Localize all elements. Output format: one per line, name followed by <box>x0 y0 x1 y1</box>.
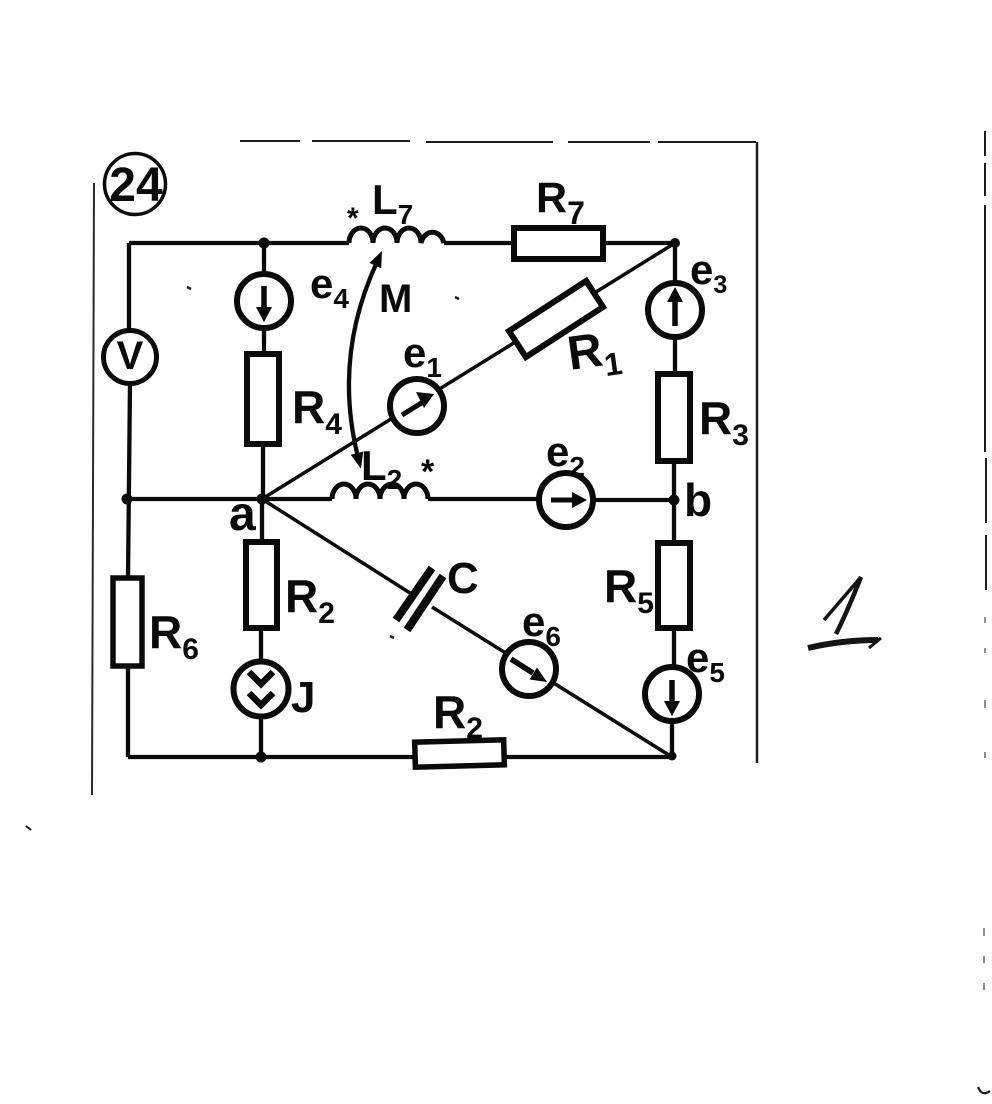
wire right upper segment <box>673 336 677 374</box>
wire top middle segment <box>444 241 514 245</box>
wire e4 to R4 <box>262 327 266 354</box>
wire right lower segment <box>672 628 676 668</box>
wire left middle segment <box>128 383 130 578</box>
scan marks right edge <box>978 131 990 1093</box>
page frame right vertical line <box>756 142 759 763</box>
wire right bottom segment <box>670 720 674 757</box>
emf source e1 <box>390 379 444 433</box>
diagonal wire a to bottom right corner <box>262 499 672 757</box>
svg-text:V: V <box>117 334 144 378</box>
emf source e6 <box>502 642 556 696</box>
emf source e3 <box>648 283 702 337</box>
wire top left segment <box>129 241 349 245</box>
scan speck 1 <box>187 287 191 289</box>
resistor R5 <box>658 543 690 628</box>
scan speck 2 <box>455 297 459 299</box>
page frame top dashed line <box>240 141 756 142</box>
capacitor C <box>396 568 443 630</box>
svg-text:J: J <box>291 673 315 722</box>
wire node a to R2 <box>260 499 264 542</box>
wire J to bottom <box>259 716 263 757</box>
diagonal wire a to top right corner <box>262 243 675 499</box>
current source J <box>234 662 289 717</box>
wire left bottom segment <box>126 666 130 757</box>
problem number badge 24 <box>105 154 166 215</box>
page frame left thin line <box>92 183 94 795</box>
handwritten mark 1 <box>808 577 881 648</box>
svg-text:a: a <box>229 488 256 541</box>
inductor L2 <box>332 484 428 499</box>
svg-text:24: 24 <box>109 159 163 212</box>
svg-text:*: * <box>421 453 435 491</box>
emf source e2 <box>539 473 593 527</box>
junction top <box>259 238 270 249</box>
voltmeter V <box>104 331 157 384</box>
node a junction <box>257 494 268 505</box>
svg-text:C: C <box>447 554 479 603</box>
resistor R1 <box>509 281 603 357</box>
mutual inductance arrow M <box>349 251 382 469</box>
svg-text:b: b <box>684 474 712 526</box>
emf source e4 <box>237 274 291 328</box>
node b junction <box>669 495 680 506</box>
wire mid left segment <box>127 497 262 501</box>
resistor R2 <box>246 542 277 628</box>
svg-text:*: * <box>347 202 359 235</box>
resistor R7 <box>514 228 603 259</box>
svg-text:M: M <box>379 277 412 321</box>
scan speck bottom left <box>26 826 31 830</box>
wire R4 to node a <box>261 444 265 499</box>
wire R2 to J <box>259 628 263 662</box>
resistor R2 bottom <box>415 740 505 767</box>
wire bottom left segment <box>128 755 415 759</box>
wire top right segment <box>603 241 675 245</box>
resistor R3 <box>658 374 690 461</box>
junction bottom <box>256 752 267 763</box>
scan speck 3 <box>390 636 394 638</box>
emf source e5 <box>645 667 699 721</box>
wire L2 to e2 <box>428 497 540 501</box>
resistor R4 <box>247 354 279 444</box>
junction mid left <box>122 494 133 505</box>
wire e4 branch top <box>262 243 266 275</box>
junction bottom right corner <box>668 752 677 761</box>
resistor R6 <box>113 578 142 666</box>
junction top right corner <box>670 238 680 248</box>
wire right middle segment <box>672 461 676 543</box>
inductor L7 <box>349 228 444 243</box>
wire left top segment <box>127 243 131 331</box>
wire bottom right segment <box>504 755 672 759</box>
wire node a to L2 <box>262 497 332 501</box>
wire e2 to node b <box>592 498 674 502</box>
wire right top segment <box>673 243 677 284</box>
